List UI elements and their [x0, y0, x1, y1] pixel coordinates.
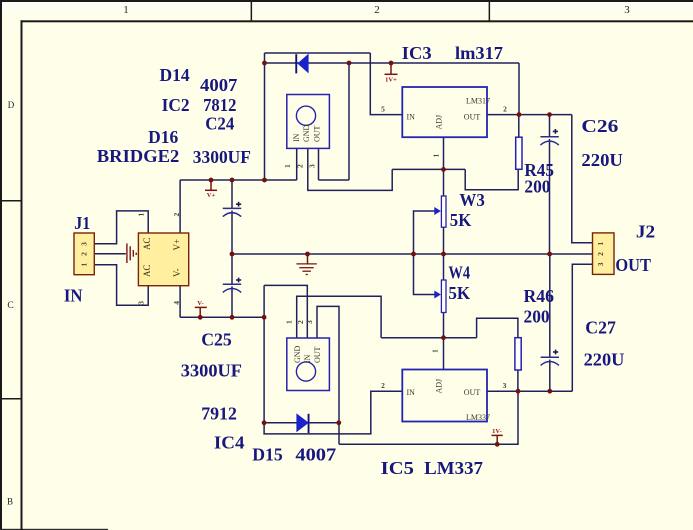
svg-text:1: 1: [137, 213, 146, 217]
power symbol 1V+: [385, 63, 398, 83]
svg-text:1: 1: [283, 164, 292, 168]
svg-text:2: 2: [503, 105, 507, 114]
svg-text:lm317: lm317: [455, 43, 503, 63]
regulator U IC5 LM337: [402, 370, 490, 423]
svg-text:V-: V-: [172, 268, 182, 277]
wire R46 bottom: [517, 370, 519, 391]
svg-text:3: 3: [305, 320, 314, 324]
svg-text:1V-: 1V-: [492, 428, 502, 435]
junction LM337 OUT R46: [516, 389, 521, 394]
wire C24 top: [231, 180, 233, 208]
wire C27 top: [549, 254, 551, 357]
svg-text:3: 3: [503, 381, 507, 390]
svg-text:R46: R46: [524, 286, 555, 306]
regulator U IC3 LM317: [402, 87, 490, 137]
wire C25 top: [231, 254, 233, 284]
wire D14 row y63: [265, 62, 520, 64]
junction LM337 ADJ W4: [441, 335, 446, 340]
svg-text:3300UF: 3300UF: [193, 147, 251, 167]
capacitor C27: [541, 350, 559, 366]
svg-text:D: D: [8, 100, 15, 110]
wire 7912 OUT jog: [317, 306, 339, 444]
svg-text:2: 2: [296, 320, 305, 324]
wire 7812 pin3: [318, 148, 320, 180]
potentiometer W4: [434, 280, 446, 313]
wire J2 pin3 riser: [572, 264, 592, 391]
svg-text:B: B: [7, 497, 13, 507]
junction raw rail / D14 loop: [262, 178, 267, 183]
svg-text:AC: AC: [142, 237, 152, 250]
svg-text:3: 3: [624, 4, 630, 16]
power symbol V+: [205, 180, 217, 199]
junction 7812 OUT riser on D14 row: [347, 61, 352, 66]
svg-text:2: 2: [381, 381, 385, 390]
wire V- rail down to D15 and LM337 IN: [264, 317, 402, 434]
svg-text:200: 200: [524, 176, 550, 196]
junction LM317 OUT / D14: [517, 112, 522, 117]
sheet inner border top: [21, 20, 693, 22]
svg-text:LM317: LM317: [466, 97, 490, 106]
wire ADJ row y169.4: [392, 168, 465, 170]
regulator U IC2 7812: [287, 95, 330, 149]
wire bridge V+ stub: [179, 180, 181, 233]
wire LM337 OUT row: [487, 390, 572, 392]
wire 7912 IN jog: [263, 285, 265, 317]
wire J1 pin2 row: [94, 253, 126, 255]
svg-text:D14: D14: [160, 65, 190, 85]
svg-text:OUT: OUT: [313, 125, 322, 142]
junction C26 top: [547, 112, 552, 117]
svg-text:OUT: OUT: [615, 255, 651, 275]
svg-text:5K: 5K: [448, 283, 470, 303]
svg-text:3: 3: [596, 262, 605, 266]
junction 1V- symbol: [495, 442, 500, 447]
svg-text:C24: C24: [205, 114, 234, 134]
junction V- rail end: [262, 315, 267, 320]
svg-text:4007: 4007: [295, 445, 336, 465]
diode D14: [295, 54, 308, 74]
wire LM337 ADJ row: [381, 337, 477, 339]
junction W3 bottom W4 top rail: [441, 252, 446, 257]
svg-text:J2: J2: [636, 221, 655, 241]
svg-text:IC4: IC4: [214, 433, 245, 453]
connector J1: [74, 233, 94, 275]
svg-text:220U: 220U: [581, 150, 623, 170]
wire 7912 GND jog to ADJ row: [297, 296, 381, 338]
capacitor C26: [540, 129, 558, 145]
wire LM317 IN riser: [370, 53, 402, 115]
svg-text:BRIDGE2: BRIDGE2: [97, 146, 180, 166]
svg-text:2: 2: [374, 4, 380, 16]
svg-text:OUT: OUT: [313, 346, 322, 363]
wire bottom row to LM337 OUT: [339, 391, 518, 444]
wire C24 bottom: [231, 211, 233, 255]
svg-text:IN: IN: [292, 133, 301, 142]
junction V- symbol: [198, 315, 203, 320]
svg-text:ADJ: ADJ: [435, 115, 444, 130]
junction C26 C27 rail: [547, 252, 552, 257]
svg-text:GND: GND: [293, 345, 302, 363]
junction C25 bottom: [230, 315, 235, 320]
wire LM317 OUT row: [487, 114, 572, 116]
wire raw V+ rail y180: [180, 179, 297, 181]
junction V+ symbol: [209, 178, 214, 183]
svg-text:2: 2: [172, 213, 181, 217]
wire 7812 OUT riser x349: [348, 63, 350, 180]
junction C24 C25 center rail: [230, 252, 235, 257]
svg-text:5K: 5K: [450, 210, 472, 230]
wire C26 bottom to rail: [549, 139, 551, 254]
resistor R45: [516, 137, 522, 169]
svg-text:1: 1: [431, 349, 440, 353]
wire C25 bottom: [231, 286, 233, 317]
capacitor C25: [223, 278, 241, 293]
wire W4 bottom to ADJ junction: [443, 313, 445, 338]
wire raw V- rail y317.3: [180, 316, 264, 318]
svg-text:7912: 7912: [201, 404, 237, 424]
svg-text:W3: W3: [459, 190, 484, 210]
wire D14 to LM317 OUT corner: [518, 63, 520, 115]
svg-text:IC5: IC5: [381, 458, 414, 478]
svg-text:D15: D15: [252, 445, 283, 465]
svg-text:3: 3: [137, 301, 146, 305]
wire center GND rail: [232, 253, 593, 255]
svg-text:IC3: IC3: [402, 43, 432, 63]
chassis ground symbol (J1 pin2): [127, 243, 136, 263]
svg-text:IN: IN: [64, 286, 83, 306]
diode D15: [296, 413, 309, 433]
wire W3 bottom to center rail: [443, 227, 445, 254]
wire 7812 pin1: [296, 148, 298, 180]
svg-text:V-: V-: [197, 300, 203, 307]
svg-text:5: 5: [381, 105, 385, 114]
wire J2 pin1 riser: [572, 115, 593, 243]
svg-text:OUT: OUT: [464, 112, 481, 121]
svg-text:220U: 220U: [584, 350, 625, 370]
svg-text:OUT: OUT: [464, 388, 481, 397]
svg-text:2: 2: [80, 252, 89, 256]
junction C27 bottom: [547, 389, 552, 394]
svg-text:V+: V+: [207, 192, 216, 199]
power symbol V-: [195, 300, 207, 317]
wire D14 loop top line: [265, 52, 371, 54]
power symbol 1V-: [492, 428, 503, 444]
svg-text:IN: IN: [407, 388, 416, 397]
junction ADJ row R45: [441, 167, 446, 172]
svg-text:LM337: LM337: [424, 458, 483, 478]
junction D14 left: [262, 61, 267, 66]
svg-text:ADJ: ADJ: [435, 379, 444, 394]
svg-text:4007: 4007: [200, 75, 237, 95]
svg-text:C27: C27: [585, 318, 616, 338]
svg-text:C26: C26: [581, 116, 618, 136]
wire D15 row: [264, 422, 339, 424]
bridge rectifier D16 BRIDGE2: [138, 233, 188, 286]
svg-text:AC: AC: [142, 264, 152, 277]
potentiometer W3: [434, 196, 446, 227]
wire LM337 ADJ pin: [443, 338, 445, 370]
resistor R46: [515, 338, 521, 370]
wire W4 top from rail: [443, 254, 445, 280]
zone tick left C|B: [0, 398, 22, 400]
wire bridge V- stub: [179, 286, 181, 318]
svg-text:IC2: IC2: [162, 95, 190, 115]
ground symbol (center rail): [296, 254, 316, 275]
svg-text:200: 200: [524, 307, 550, 327]
svg-text:3: 3: [308, 164, 317, 168]
junction 1V+: [389, 61, 394, 66]
sheet inner border left: [21, 20, 23, 530]
svg-text:C: C: [7, 301, 13, 311]
wire C27 bottom: [549, 360, 551, 392]
svg-text:IN: IN: [407, 112, 416, 121]
wire W3 wiper: [414, 211, 438, 254]
wire J1 pin1 row: [94, 265, 148, 306]
svg-text:1: 1: [596, 242, 605, 246]
svg-text:1V+: 1V+: [385, 76, 397, 83]
svg-text:IN: IN: [303, 354, 312, 363]
zone tick top 2|3: [489, 0, 491, 22]
svg-text:D16: D16: [148, 127, 178, 147]
svg-text:1: 1: [80, 263, 89, 267]
svg-text:2: 2: [296, 164, 305, 168]
wire left vertical raw V+ to D14: [264, 53, 266, 180]
junction W3 W4 wiper rail: [411, 252, 416, 257]
svg-text:4: 4: [172, 301, 181, 305]
wire rail pin3 segment: [319, 179, 350, 181]
junction ground symbol: [305, 252, 310, 257]
wire R45 bottom jog to ADJ: [465, 169, 518, 190]
svg-text:2: 2: [596, 252, 605, 256]
capacitor C24: [223, 202, 241, 217]
svg-text:J1: J1: [74, 213, 90, 233]
zone tick top 1|2: [251, 0, 253, 22]
wire LM317 ADJ pin down to W3: [443, 137, 445, 196]
svg-text:W4: W4: [448, 262, 470, 282]
svg-text:C25: C25: [201, 330, 232, 350]
regulator U IC4 7912: [287, 338, 330, 391]
svg-text:LM337: LM337: [466, 413, 490, 422]
zone tick left D|C: [0, 200, 22, 202]
svg-text:1: 1: [432, 154, 441, 158]
svg-text:1: 1: [123, 4, 129, 16]
sheet outer border bottom: [0, 529, 108, 530]
junction C24 top: [230, 178, 235, 183]
wire W4 wiper: [414, 254, 438, 295]
junction D15 cathode: [336, 420, 341, 425]
sheet outer border top: [0, 0, 693, 2]
wire J1 pin3 row: [94, 211, 148, 244]
svg-text:1: 1: [285, 320, 294, 324]
connector J2: [593, 233, 615, 275]
svg-text:V+: V+: [172, 239, 182, 251]
wire ADJ jog down to 7812 GND: [308, 148, 392, 190]
wire R45 top: [518, 115, 520, 138]
svg-text:3300UF: 3300UF: [181, 361, 242, 381]
junction D15 anode: [262, 420, 267, 425]
sheet outer border left: [0, 0, 2, 530]
svg-text:3: 3: [80, 242, 89, 246]
svg-text:GND: GND: [302, 124, 311, 142]
svg-text:7812: 7812: [203, 95, 236, 115]
wire ADJ row jog to R46: [477, 318, 518, 337]
wire C26 top: [549, 115, 551, 137]
